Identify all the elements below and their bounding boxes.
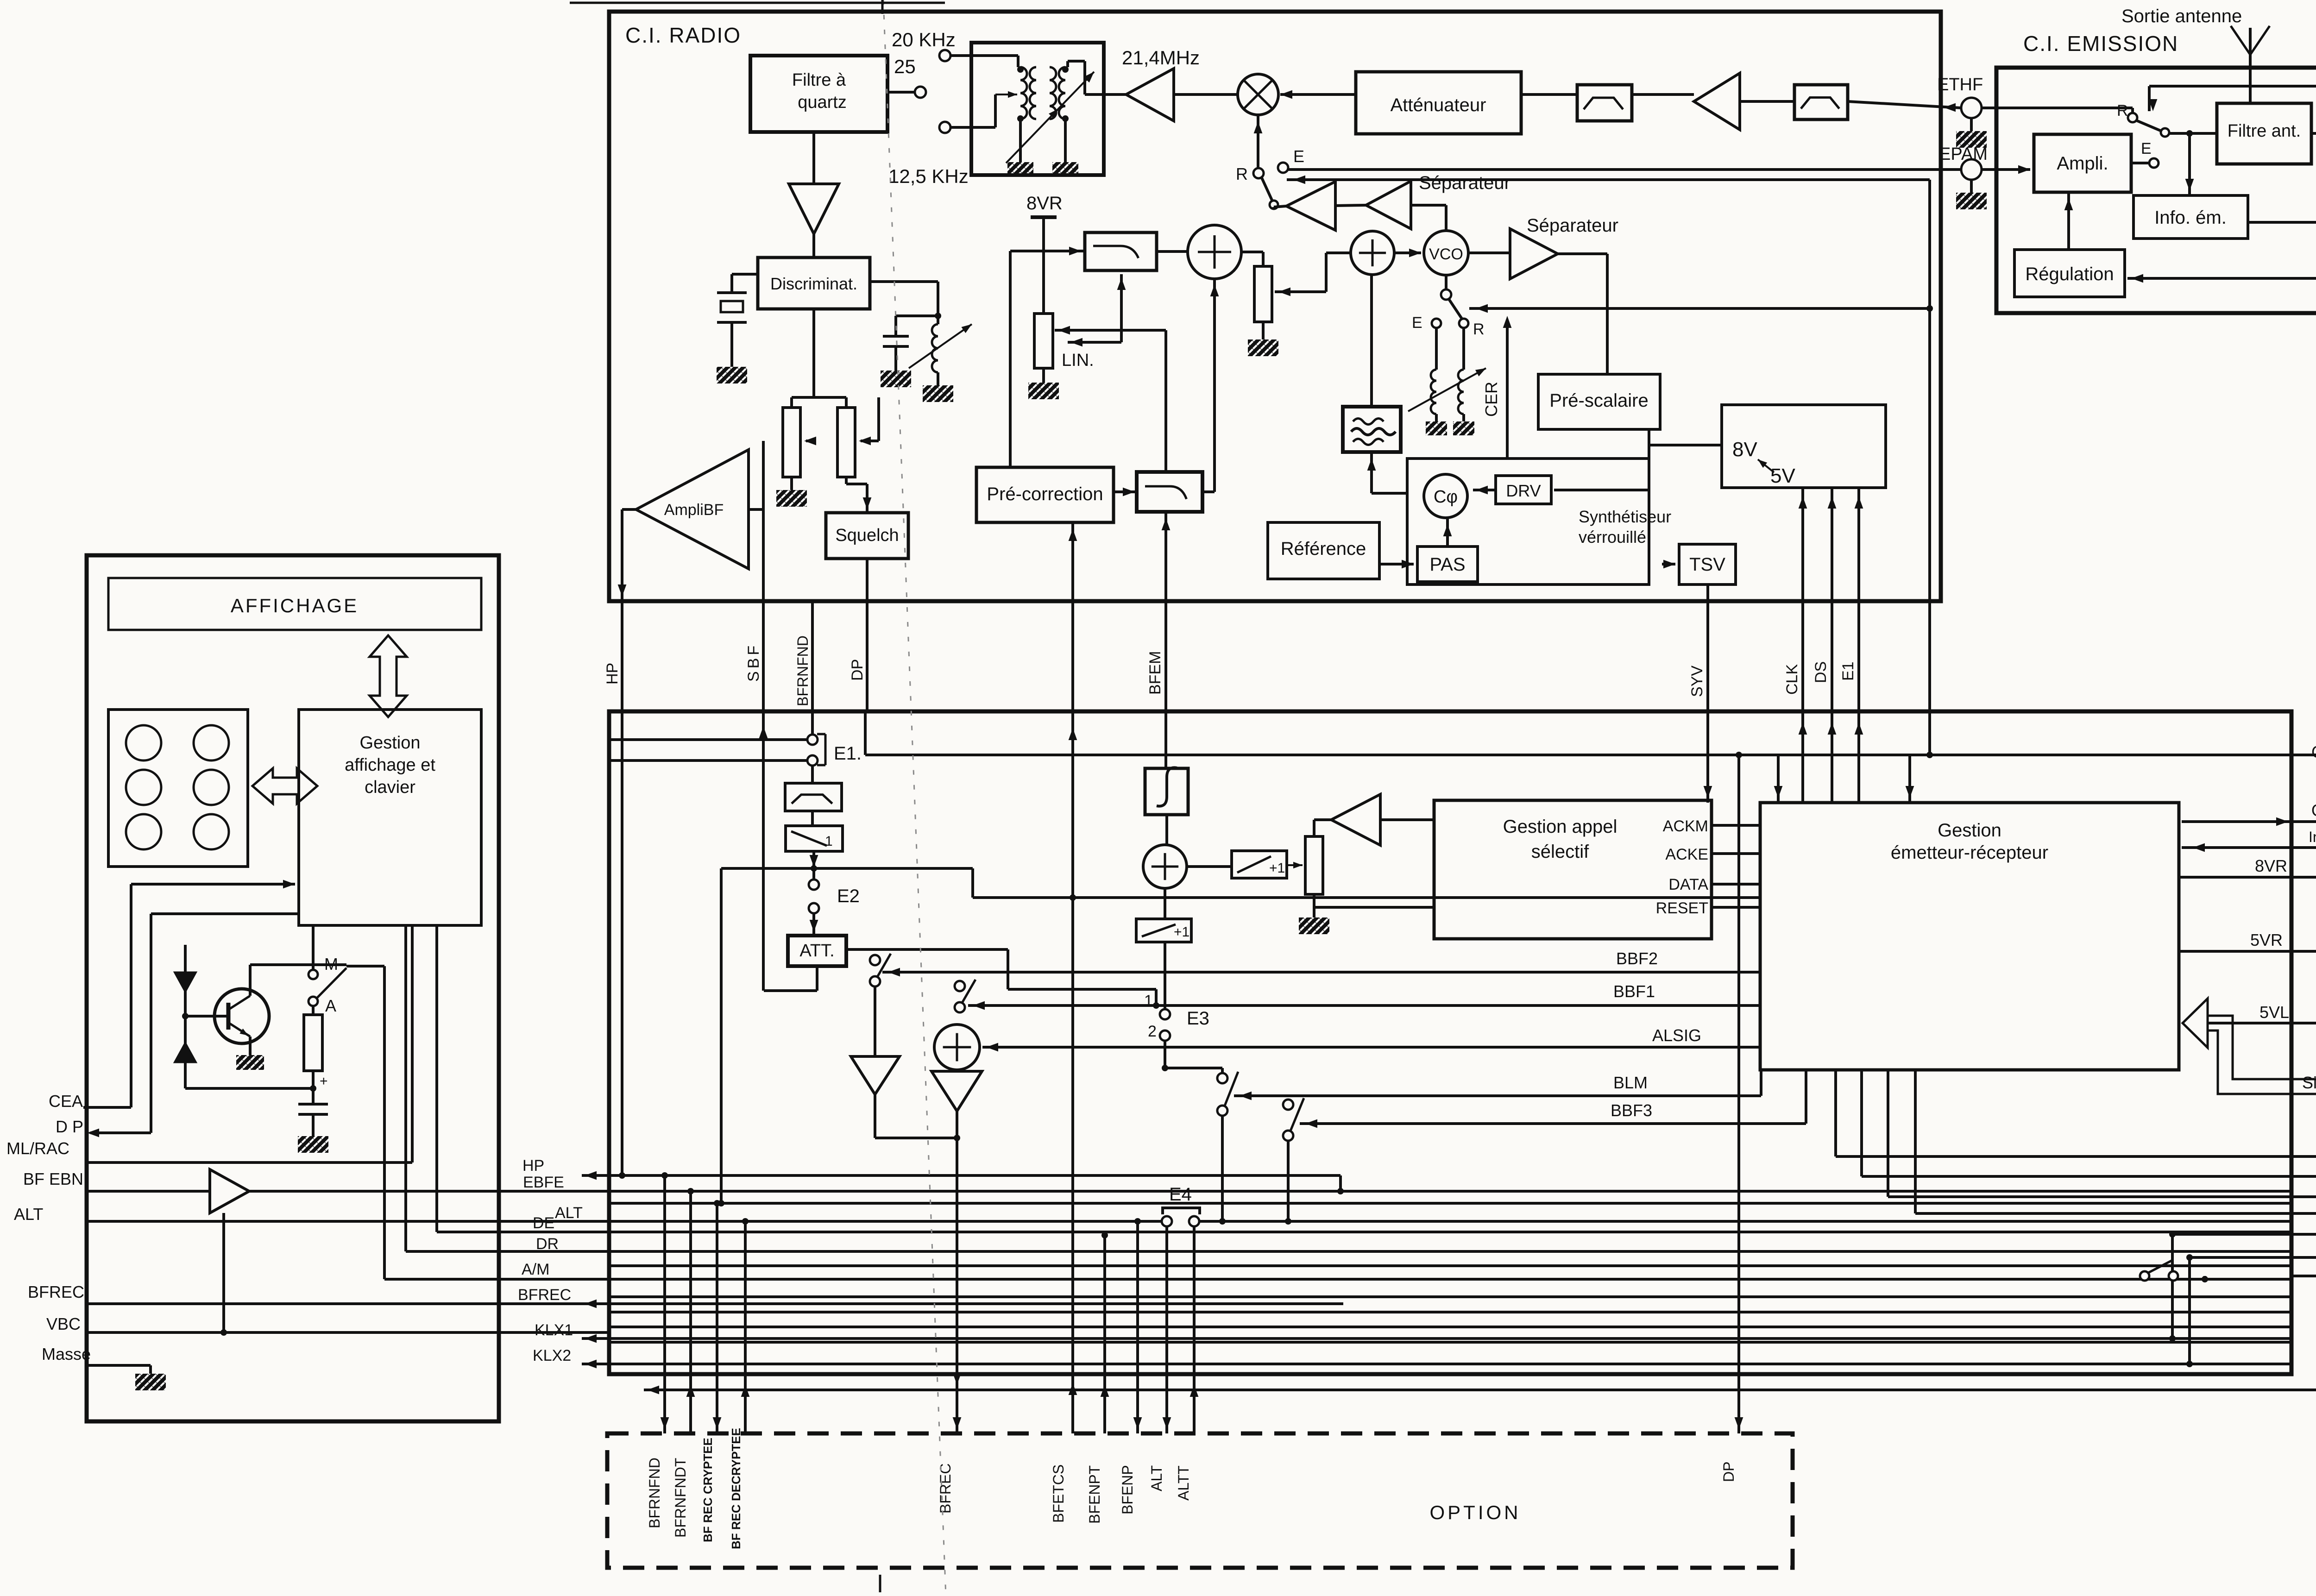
svg-text:DE: DE — [533, 1214, 554, 1232]
svg-text:BLM: BLM — [1613, 1073, 1648, 1092]
svg-text:ALT: ALT — [1148, 1465, 1165, 1491]
svg-text:8VR: 8VR — [1026, 193, 1063, 214]
svg-text:SBF: SBF — [745, 643, 762, 682]
svg-text:A: A — [325, 996, 336, 1015]
svg-text:ETHF: ETHF — [1937, 75, 1983, 94]
svg-text:AFFICHAGE: AFFICHAGE — [231, 595, 359, 616]
svg-text:DATA: DATA — [1668, 876, 1708, 893]
svg-text:E4: E4 — [1169, 1184, 1192, 1205]
svg-text:affichage et: affichage et — [345, 755, 435, 775]
svg-text:BFETCS: BFETCS — [1050, 1464, 1067, 1523]
svg-text:Signaux logiques: Signaux logiques — [2302, 1073, 2316, 1092]
svg-text:ACKM: ACKM — [1663, 817, 1708, 835]
svg-text:Squelch: Squelch — [835, 526, 899, 545]
svg-text:OPTION: OPTION — [1429, 1502, 1521, 1523]
svg-text:Synthétiseur: Synthétiseur — [1579, 507, 1671, 526]
svg-text:BFEM: BFEM — [1146, 651, 1164, 695]
svg-text:PAS: PAS — [1429, 554, 1465, 575]
svg-text:Masse: Masse — [42, 1345, 91, 1364]
svg-text:LIN.: LIN. — [1062, 351, 1094, 370]
svg-text:ALSIG: ALSIG — [1652, 1026, 1701, 1045]
svg-text:ML/RAC: ML/RAC — [6, 1139, 69, 1158]
svg-text:ACKE: ACKE — [1665, 846, 1708, 863]
svg-text:5VR: 5VR — [2250, 930, 2283, 949]
svg-text:BFRNFND: BFRNFND — [794, 635, 811, 706]
svg-text:BBF1: BBF1 — [1613, 982, 1655, 1001]
svg-text:Atténuateur: Atténuateur — [1391, 95, 1486, 115]
svg-text:Gestion: Gestion — [360, 733, 421, 753]
svg-text:Info. ém.: Info. ém. — [2154, 207, 2227, 228]
svg-text:E3: E3 — [1187, 1008, 1209, 1029]
svg-text:BF EBN: BF EBN — [23, 1169, 83, 1188]
svg-text:OPE: OPE — [2311, 801, 2316, 820]
svg-text:Pré-correction: Pré-correction — [987, 484, 1103, 504]
svg-text:émetteur-récepteur: émetteur-récepteur — [1891, 842, 2048, 863]
svg-text:DP: DP — [849, 659, 866, 681]
svg-text:C.I. RADIO: C.I. RADIO — [625, 23, 741, 47]
svg-text:RESET: RESET — [1656, 899, 1708, 917]
svg-text:HP: HP — [522, 1157, 544, 1175]
svg-text:Référence: Référence — [1281, 539, 1366, 559]
svg-text:HP: HP — [604, 663, 621, 685]
svg-text:Séparateur: Séparateur — [1419, 173, 1510, 193]
svg-text:TSV: TSV — [1689, 554, 1725, 575]
svg-text:+1: +1 — [1174, 924, 1189, 940]
svg-text:E: E — [1412, 314, 1422, 332]
svg-text:Cφ: Cφ — [1434, 487, 1458, 507]
svg-text:E1: E1 — [1839, 661, 1857, 681]
svg-text:Ampli.: Ampli. — [2057, 153, 2108, 174]
svg-text:+: + — [320, 1074, 328, 1089]
svg-text:R: R — [2117, 102, 2128, 119]
svg-text:DR: DR — [536, 1235, 559, 1253]
svg-text:Discriminat.: Discriminat. — [770, 274, 857, 293]
svg-text:BBF3: BBF3 — [1611, 1101, 1652, 1120]
svg-text:Séparateur: Séparateur — [1527, 215, 1618, 236]
svg-text:Sortie antenne: Sortie antenne — [2121, 6, 2242, 26]
svg-text:AmpliBF: AmpliBF — [664, 501, 724, 519]
svg-text:ALT: ALT — [14, 1205, 43, 1224]
svg-text:A/M: A/M — [522, 1261, 549, 1278]
svg-text:E1.: E1. — [834, 743, 862, 764]
svg-text:ALT: ALT — [555, 1204, 583, 1222]
svg-text:BF REC CRYPTEE: BF REC CRYPTEE — [701, 1438, 715, 1542]
svg-text:BFRNFND: BFRNFND — [646, 1458, 663, 1528]
svg-text:E: E — [2141, 140, 2152, 157]
svg-text:EBFE: EBFE — [523, 1174, 564, 1191]
svg-text:5V: 5V — [1770, 465, 1795, 487]
svg-text:BFREC: BFREC — [518, 1286, 571, 1304]
svg-text:KLX1: KLX1 — [535, 1321, 573, 1339]
svg-text:BF REC DECRYPTEE: BF REC DECRYPTEE — [729, 1428, 743, 1549]
svg-text:SYV: SYV — [1688, 666, 1706, 697]
svg-text:sélectif: sélectif — [1531, 842, 1589, 862]
svg-text:VBC: VBC — [46, 1314, 81, 1333]
svg-text:Filtre ant.: Filtre ant. — [2228, 121, 2301, 141]
svg-text:BFREC: BFREC — [28, 1282, 84, 1301]
svg-text:C.I. EMISSION: C.I. EMISSION — [2023, 31, 2178, 56]
svg-text:CLK: CLK — [1783, 664, 1801, 695]
svg-text:8VR: 8VR — [2255, 856, 2287, 875]
svg-text:ALTT: ALTT — [1175, 1465, 1192, 1501]
svg-text:CER: CER — [2311, 742, 2316, 761]
svg-text:+1: +1 — [1269, 861, 1285, 876]
svg-text:Gestion appel: Gestion appel — [1503, 817, 1617, 837]
svg-text:BFREC: BFREC — [937, 1464, 954, 1514]
svg-text:CEA: CEA — [49, 1092, 83, 1111]
svg-text:5VL: 5VL — [2259, 1003, 2289, 1022]
svg-text:vérrouillé: vérrouillé — [1579, 528, 1646, 547]
svg-text:Pré-scalaire: Pré-scalaire — [1549, 390, 1648, 411]
svg-text:EPAM: EPAM — [1939, 145, 1988, 164]
svg-text:BBF2: BBF2 — [1616, 949, 1658, 968]
svg-text:R: R — [1236, 164, 1248, 183]
svg-text:DP: DP — [1720, 1462, 1737, 1482]
svg-text:BFRNFNDT: BFRNFNDT — [672, 1458, 689, 1538]
svg-text:DRV: DRV — [1506, 481, 1541, 500]
svg-text:CER: CER — [1482, 382, 1501, 417]
svg-text:8V: 8V — [1732, 438, 1757, 461]
svg-text:Régulation: Régulation — [2025, 264, 2114, 284]
svg-text:KLX2: KLX2 — [533, 1347, 571, 1364]
svg-text:E2: E2 — [837, 886, 860, 906]
svg-text:21,4MHz: 21,4MHz — [1122, 47, 1200, 69]
svg-text:DS: DS — [1812, 661, 1830, 683]
svg-text:VCO: VCO — [1429, 245, 1463, 263]
svg-text:D P: D P — [56, 1117, 83, 1136]
svg-text:12,5 KHz: 12,5 KHz — [888, 165, 969, 187]
svg-text:BFENP: BFENP — [1119, 1465, 1136, 1514]
svg-text:E: E — [1293, 147, 1304, 166]
svg-text:25: 25 — [894, 56, 916, 77]
svg-text:20 KHz: 20 KHz — [892, 29, 956, 50]
svg-text:BFENPT: BFENPT — [1086, 1465, 1103, 1524]
svg-text:1: 1 — [1144, 992, 1153, 1010]
svg-text:1: 1 — [825, 834, 833, 849]
svg-text:Gestion: Gestion — [1938, 820, 2001, 841]
svg-text:2: 2 — [1148, 1023, 1157, 1040]
svg-text:R: R — [1473, 320, 1485, 338]
svg-text:ATT.: ATT. — [799, 941, 834, 961]
svg-text:clavier: clavier — [365, 778, 415, 797]
svg-text:Info. ém: Info. ém — [2309, 829, 2316, 845]
svg-text:quartz: quartz — [798, 93, 847, 112]
svg-text:Filtre à: Filtre à — [792, 70, 846, 90]
